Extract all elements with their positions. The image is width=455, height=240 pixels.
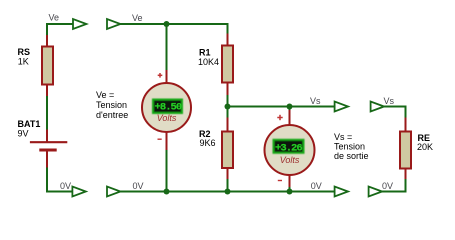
svg-text:10K4: 10K4 (198, 57, 219, 67)
svg-text:Vs =: Vs = (334, 132, 352, 142)
svg-text:R1: R1 (199, 48, 211, 58)
svg-text:Ve =: Ve = (96, 90, 114, 100)
svg-text:Vs: Vs (310, 96, 321, 106)
svg-text:Ve: Ve (49, 13, 60, 23)
svg-text:de sortie: de sortie (334, 151, 369, 161)
svg-text:d'entree: d'entree (96, 110, 128, 120)
svg-text:0V: 0V (133, 181, 144, 191)
svg-text:Tension: Tension (334, 142, 365, 152)
svg-text:Volts: Volts (157, 113, 177, 123)
svg-text:BAT1: BAT1 (18, 119, 41, 129)
svg-text:1K: 1K (18, 57, 29, 67)
svg-text:+8.50: +8.50 (155, 102, 182, 114)
svg-text:9K6: 9K6 (200, 138, 216, 148)
svg-text:Volts: Volts (280, 155, 300, 165)
svg-text:9V: 9V (18, 129, 29, 139)
svg-text:0V: 0V (60, 181, 71, 191)
svg-text:+3.26: +3.26 (275, 143, 302, 155)
svg-text:Ve: Ve (132, 13, 143, 23)
svg-text:RS: RS (18, 47, 31, 57)
svg-text:0V: 0V (311, 181, 322, 191)
svg-text:20K: 20K (417, 142, 433, 152)
svg-text:Vs: Vs (384, 96, 395, 106)
svg-text:Tension: Tension (96, 100, 127, 110)
svg-text:0V: 0V (382, 181, 393, 191)
